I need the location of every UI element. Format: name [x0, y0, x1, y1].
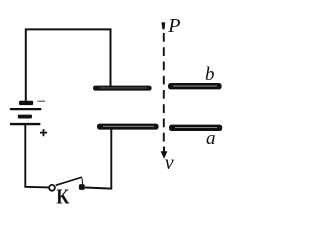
svg-text:K: K [56, 186, 69, 209]
svg-text:P: P [167, 15, 180, 37]
svg-text:b: b [205, 64, 215, 85]
svg-text:v: v [165, 152, 174, 174]
svg-text:a: a [206, 128, 216, 149]
